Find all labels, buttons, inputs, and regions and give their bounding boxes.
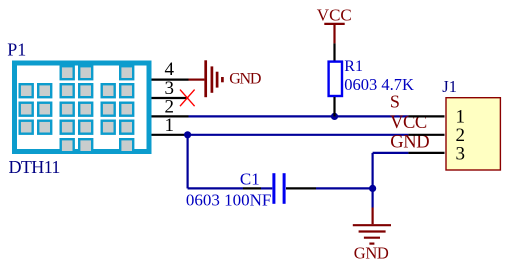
junction dot C1 / GND net	[369, 185, 376, 192]
wire vertical GND drop	[372, 153, 374, 208]
pin of C1 right (black)	[286, 187, 316, 189]
svg-text:3: 3	[455, 144, 465, 165]
pin 2 of P1	[152, 115, 189, 117]
power ground symbol on pin 4 (horizontal)	[189, 60, 223, 97]
svg-text:GND: GND	[229, 71, 261, 88]
power ground symbol bottom	[353, 208, 391, 244]
pin 3 of P1	[152, 97, 189, 99]
wire C1 right to GND corner	[316, 187, 373, 189]
wire net GND horizontal	[373, 152, 409, 154]
wire C1 left	[188, 187, 243, 189]
wire net VCC horizontal	[189, 134, 409, 136]
svg-text:DTH11: DTH11	[9, 157, 60, 177]
svg-text:0603 100NF: 0603 100NF	[186, 191, 271, 210]
svg-text:S: S	[390, 92, 400, 112]
pin 4 of P1	[152, 78, 189, 80]
connector P1 body	[15, 63, 150, 152]
pin of C1 left (black)	[243, 187, 261, 189]
svg-text:0603 4.7K: 0603 4.7K	[344, 75, 414, 94]
pin 1 of J1	[408, 115, 444, 117]
VCC power symbol	[324, 24, 344, 44]
resistor R1 body	[329, 62, 342, 96]
svg-text:1: 1	[164, 115, 174, 136]
wire vertical from P1 pin1 down to C1	[187, 135, 189, 189]
svg-text:VCC: VCC	[317, 5, 352, 24]
capacitor C1 plates	[274, 173, 284, 204]
svg-text:J1: J1	[442, 77, 457, 96]
pin 2 of J1	[408, 134, 444, 136]
wire stub to C1 left plate	[261, 187, 272, 189]
pin 1 of P1	[152, 134, 189, 136]
junction dot R1 / S net	[331, 113, 338, 120]
pin 3 of J1	[408, 152, 444, 154]
connector J1 body	[446, 98, 500, 170]
no-ERC marker X on pin 3	[180, 90, 195, 107]
svg-text:C1: C1	[240, 170, 260, 189]
svg-text:GND: GND	[354, 244, 389, 263]
svg-text:R1: R1	[344, 58, 363, 75]
wire net S horizontal	[189, 115, 409, 117]
wire R1 bottom to S net (black pin)	[333, 97, 335, 116]
svg-text:P1: P1	[7, 40, 26, 60]
junction dot P1 pin1 / C1	[184, 131, 191, 138]
wire VCC to R1 (black pin)	[333, 43, 335, 60]
